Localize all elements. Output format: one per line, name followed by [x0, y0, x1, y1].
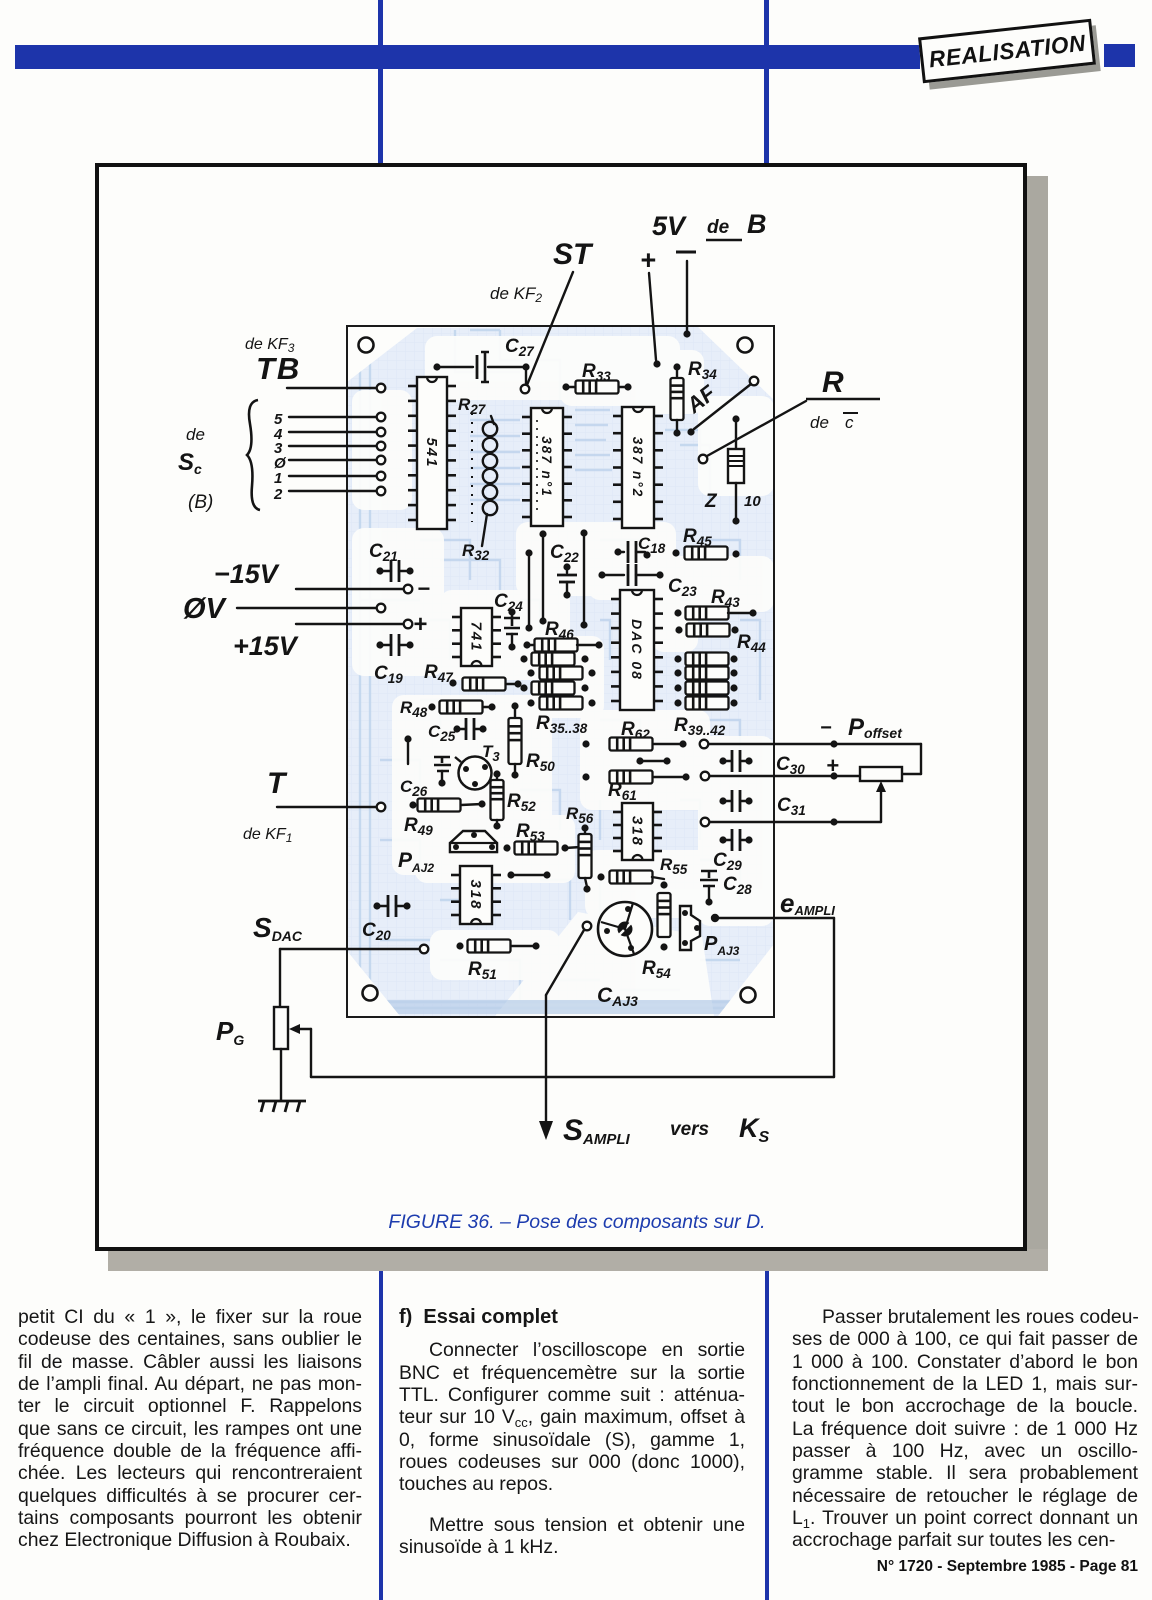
wire TB input — [287, 387, 376, 389]
svg-text:Poffset: Poffset — [848, 714, 903, 741]
svg-text:de KF2: de KF2 — [490, 284, 542, 305]
svg-text:318: 318 — [467, 879, 484, 910]
wire R to pad — [707, 401, 806, 456]
resistor R42 — [674, 699, 681, 706]
capacitor C31 — [719, 797, 726, 804]
wire phiV — [237, 607, 376, 609]
figure box shadow — [1026, 176, 1048, 1265]
svg-text:5V: 5V — [652, 211, 687, 241]
svg-text:+: + — [640, 245, 656, 275]
svg-text:ST: ST — [553, 238, 594, 271]
capacitor C30 — [719, 757, 726, 764]
minus terminal 5V — [676, 251, 696, 254]
capacitor C19 — [376, 641, 383, 648]
svg-text:−: − — [820, 717, 832, 739]
svg-text:T: T — [267, 767, 288, 800]
svg-text:+: + — [413, 611, 427, 638]
capacitor C23 — [598, 571, 605, 578]
wire node A — [525, 549, 532, 556]
svg-text:10: 10 — [744, 493, 761, 510]
svg-text:TB: TB — [256, 351, 301, 386]
text column 1 — [18, 1306, 362, 1552]
capacitor C28 — [700, 871, 718, 886]
resistor R61 — [582, 773, 589, 780]
wire 0V — [686, 261, 688, 331]
wire Poffset bottom — [709, 821, 881, 823]
resistor R50 — [511, 702, 518, 709]
svg-text:541: 541 — [423, 437, 440, 468]
pad row right — [700, 740, 709, 749]
wire SAMPLI — [583, 922, 592, 931]
IC 387 n1 — [531, 408, 563, 526]
svg-text:C31: C31 — [777, 795, 806, 818]
wire +5V — [649, 273, 656, 360]
resistor R38 — [527, 699, 534, 706]
op-amp U741 — [461, 608, 492, 666]
mounting hole top-left — [359, 338, 374, 353]
svg-text:C30: C30 — [776, 754, 805, 777]
svg-text:741: 741 — [468, 621, 485, 652]
wire T input — [277, 806, 376, 808]
page footer — [792, 1558, 1138, 1576]
text column 3 — [792, 1306, 1138, 1552]
wire AF — [750, 377, 759, 386]
potentiometer PG — [279, 949, 281, 1007]
resistor R54 — [660, 881, 667, 888]
op-amp U318 right — [622, 803, 653, 860]
wire stub mid — [636, 757, 643, 764]
svg-text:B: B — [747, 209, 767, 239]
resistor R37 — [520, 684, 527, 691]
wire stub — [507, 871, 514, 878]
svg-text:−15V: −15V — [214, 559, 280, 589]
mounting hole top-right — [738, 338, 753, 353]
PG wiper arrow — [296, 1028, 311, 1030]
resistor R44 — [675, 626, 682, 633]
svg-text:+15V: +15V — [233, 631, 299, 661]
top blue bar — [15, 45, 920, 69]
svg-text:(B): (B) — [188, 492, 213, 513]
board outline — [347, 326, 774, 1017]
svg-text:KS: KS — [739, 1113, 770, 1146]
resistor R40 — [674, 669, 681, 676]
trimmer capacitor CAJ3 — [598, 902, 652, 956]
REALISATION stamp — [918, 19, 1096, 84]
ground symbol — [258, 1101, 306, 1112]
svg-text:c: c — [845, 413, 854, 432]
wire +15V — [296, 623, 403, 625]
text column 2 — [399, 1306, 745, 1558]
wire e AMPLI loop — [711, 914, 719, 922]
vertical blue rule 1 (bottom) — [379, 1271, 383, 1600]
potentiometer Poffset — [860, 767, 902, 781]
svg-text:1: 1 — [274, 470, 282, 487]
vertical blue rule 2 (top) — [764, 0, 769, 164]
resistor R36 — [527, 669, 534, 676]
capacitor C29 — [719, 836, 726, 843]
brace for Sc bus — [247, 400, 260, 510]
svg-text:eAMPLI: eAMPLI — [780, 888, 835, 918]
zener Z 10 — [732, 415, 739, 422]
wire node B — [539, 530, 546, 537]
svg-text:DAC 08: DAC 08 — [629, 619, 645, 681]
wire -15V — [296, 588, 403, 590]
svg-text:PG: PG — [216, 1016, 244, 1048]
svg-text:ØV: ØV — [183, 593, 228, 625]
wire Poffset mid — [709, 775, 860, 777]
svg-text:SDAC: SDAC — [253, 912, 303, 944]
figure caption — [112, 1211, 1042, 1234]
wire SDAC — [280, 948, 419, 950]
svg-text:Sc: Sc — [178, 449, 202, 477]
figure box — [95, 163, 1027, 1251]
op-amp U318 left — [460, 866, 492, 924]
IC 387 n2 — [622, 407, 654, 528]
vertical blue rule 2 (bottom) — [765, 1271, 769, 1600]
wire Poffset top — [708, 743, 921, 745]
mounting hole bottom-right — [741, 988, 756, 1003]
svg-text:R: R — [822, 366, 844, 399]
svg-text:de: de — [707, 217, 730, 238]
svg-text:387 n°2: 387 n°2 — [630, 437, 645, 498]
wire stub T3 base — [404, 735, 411, 742]
vertical blue rule 1 (top) — [378, 0, 383, 164]
svg-text:318: 318 — [629, 816, 646, 847]
svg-text:2: 2 — [273, 486, 283, 503]
resistor R52 — [493, 770, 500, 777]
svg-text:vers: vers — [670, 1119, 709, 1140]
wire node C — [580, 529, 587, 536]
wire ST — [527, 272, 573, 385]
svg-text:−: − — [417, 576, 430, 601]
resistor R35 — [520, 655, 527, 662]
IC U541 buffer — [417, 377, 447, 529]
svg-text:SAMPLI: SAMPLI — [563, 1114, 631, 1148]
svg-text:387 n°1: 387 n°1 — [539, 436, 554, 497]
Poffset wiper arrow — [880, 787, 882, 822]
mounting hole bottom-left — [363, 986, 378, 1001]
svg-text:de KF1: de KF1 — [243, 826, 292, 845]
resistor R41 — [674, 684, 681, 691]
resistor R51 — [456, 942, 463, 949]
svg-text:de: de — [186, 425, 205, 444]
resistor R39 — [674, 655, 681, 662]
trimmer PAJ2 — [450, 831, 497, 852]
svg-text:Z: Z — [704, 491, 718, 512]
capacitor C20 — [373, 902, 380, 909]
IC DAC 08 — [620, 590, 654, 710]
resistor R49 — [409, 801, 416, 808]
svg-text:de: de — [810, 413, 829, 432]
trimmer PAJ3 — [680, 906, 700, 950]
